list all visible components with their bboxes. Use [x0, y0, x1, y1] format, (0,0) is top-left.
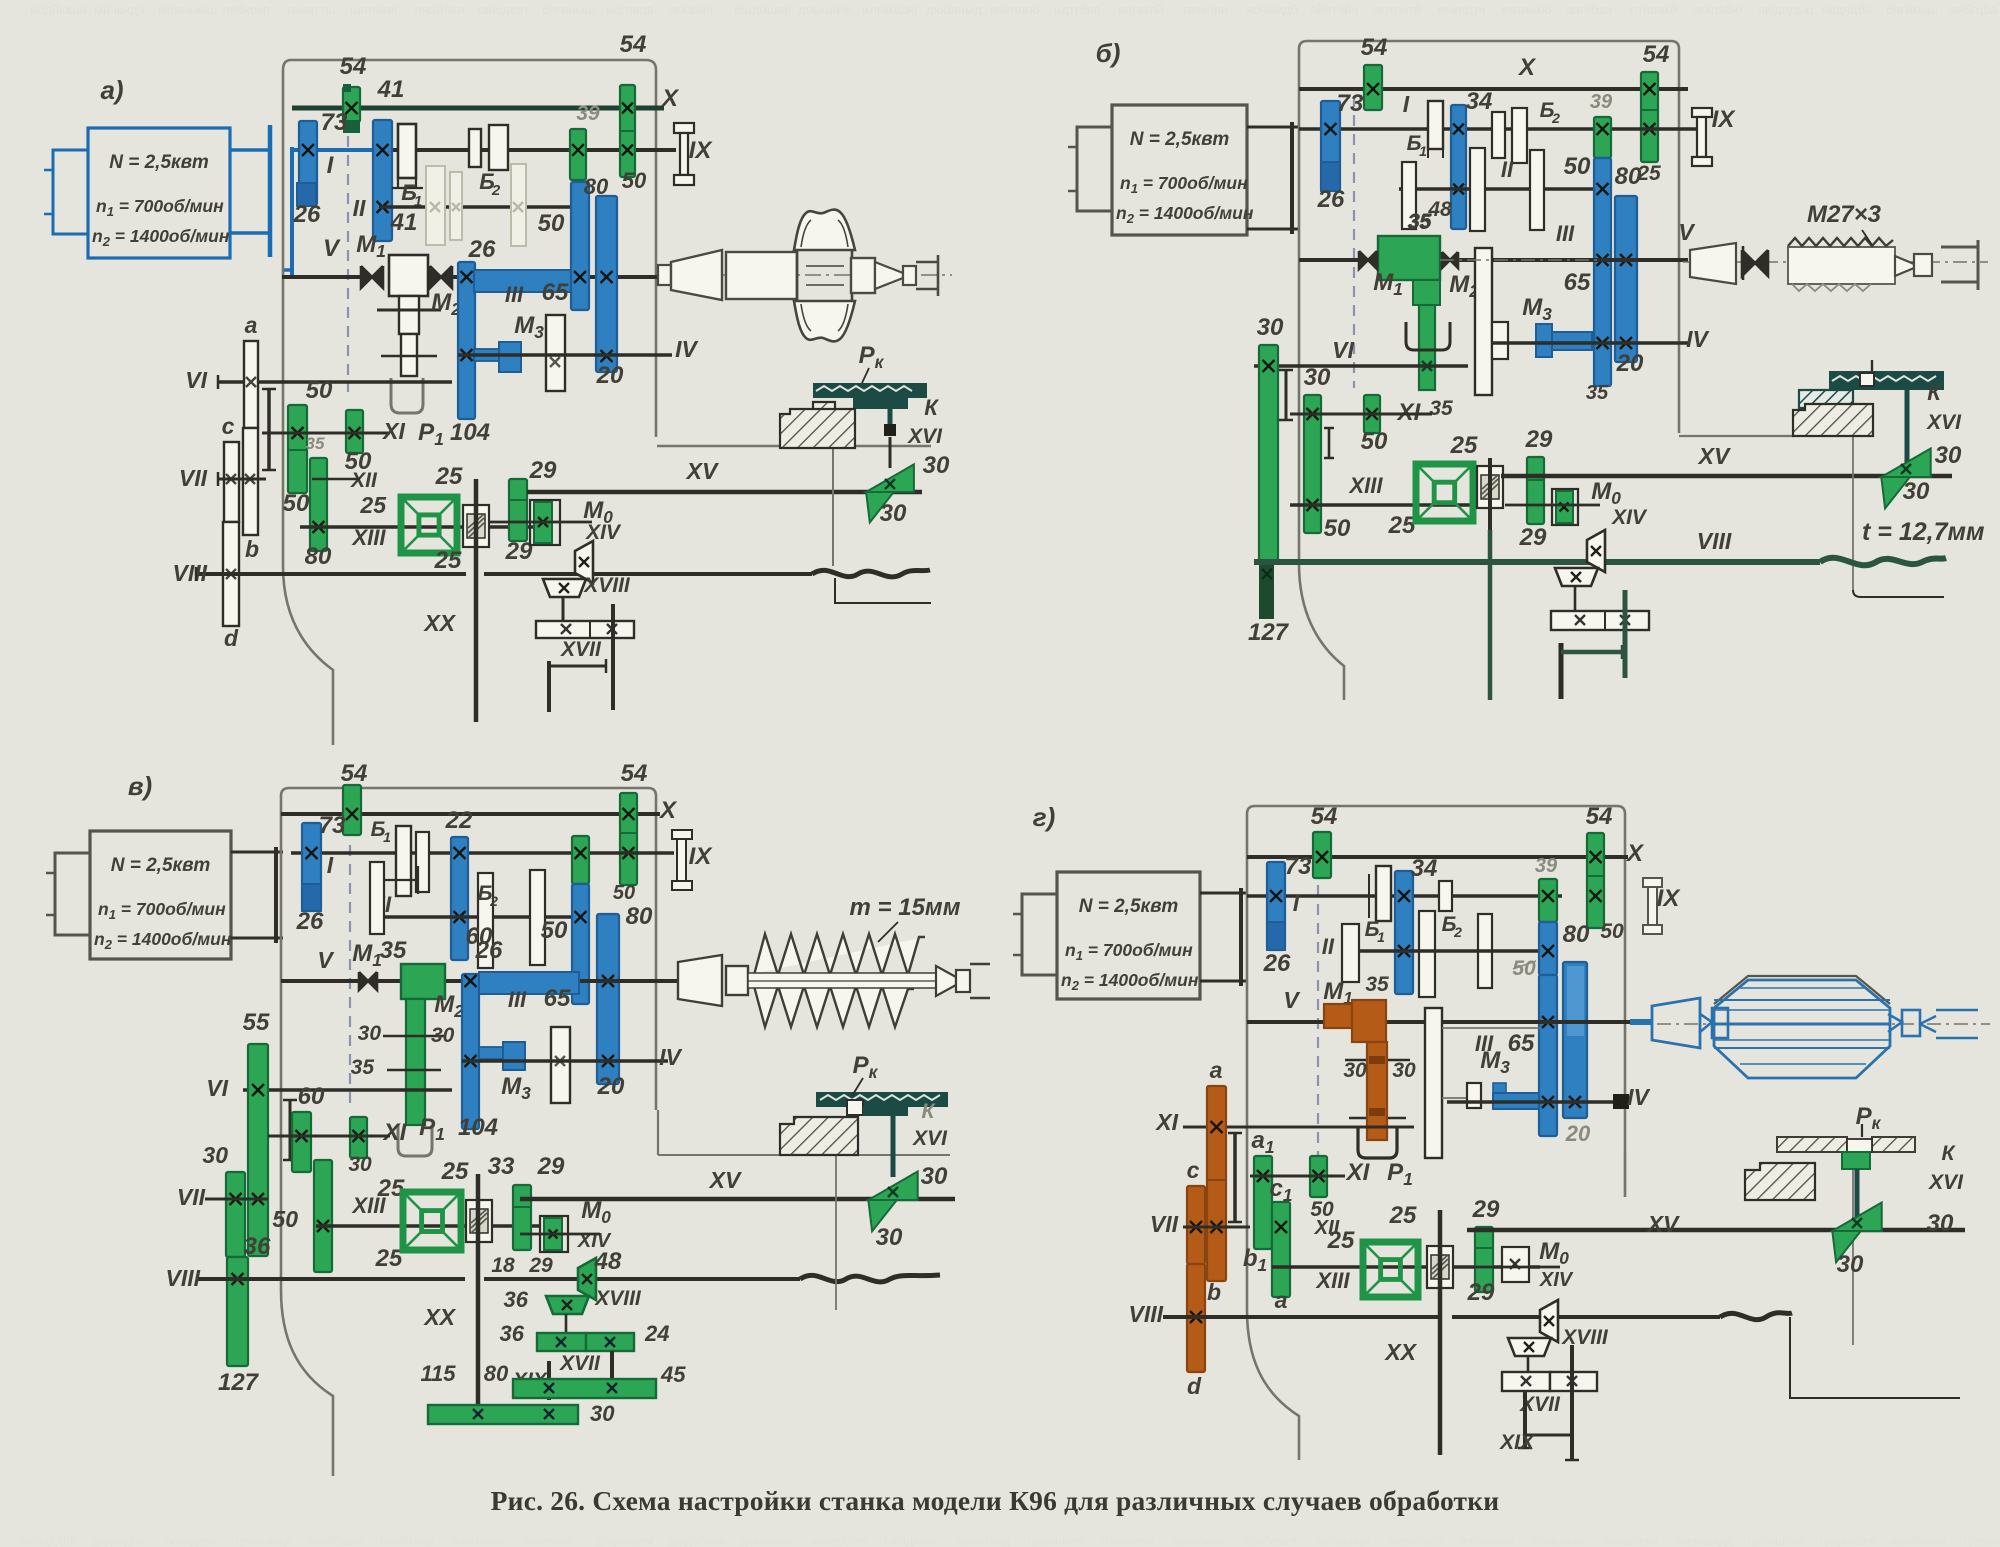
svg-text:гивюшадд: гивюшадд: [1676, 1534, 1733, 1547]
svg-text:оыэлтипд: оыэлтипд: [956, 1534, 1010, 1547]
svg-text:b: b: [245, 536, 259, 562]
svg-text:XIX: XIX: [1499, 1431, 1536, 1454]
svg-text:n1 = 700об/мин: n1 = 700об/мин: [1065, 940, 1193, 963]
shaft XVI g: [1855, 1169, 1860, 1222]
svg-text:шллкквг: шллкквг: [350, 2, 399, 17]
shaft XX g: [1438, 1210, 1443, 1455]
svg-text:ибдйюша: ибдйюша: [30, 2, 87, 17]
svg-text:IV: IV: [1627, 1084, 1650, 1110]
svg-text:29: 29: [1519, 524, 1547, 551]
svg-text:25: 25: [1389, 1202, 1417, 1229]
clutch M3 a: [474, 349, 500, 361]
flags XVIII b: [1587, 530, 1605, 572]
svg-text:VIII: VIII: [1128, 1301, 1163, 1327]
gear on II mid b: [1470, 148, 1485, 231]
svg-text:25: 25: [375, 1245, 403, 1272]
belt drive g: [1200, 892, 1247, 895]
change gear c: [224, 442, 239, 522]
shaft II b: [1399, 187, 1594, 191]
svg-text:50: 50: [613, 882, 635, 904]
svg-text:50: 50: [1564, 153, 1591, 180]
clutch M3 b: [1550, 332, 1592, 350]
shaft II v: [370, 915, 572, 919]
svg-text:XI: XI: [1345, 1159, 1371, 1186]
driver dog b: [1742, 250, 1755, 276]
svg-text:25: 25: [441, 1158, 469, 1185]
svg-text:2: 2: [1453, 924, 1462, 940]
svg-text:50: 50: [1361, 428, 1388, 455]
gear on IV white a: [546, 315, 565, 391]
svg-text:XV: XV: [1697, 443, 1731, 469]
gear 26 v: [302, 884, 321, 911]
thread workpiece M27 b: [1788, 247, 1895, 284]
gearbox housing b: [1307, 41, 1679, 433]
white gear II g: [1342, 924, 1359, 982]
svg-text:26: 26: [296, 908, 324, 935]
svg-text:VI: VI: [185, 367, 207, 393]
svg-text:XIII: XIII: [350, 525, 386, 550]
svg-text:2: 2: [1551, 110, 1560, 126]
gear 54 left b: [1364, 65, 1382, 110]
white gear IV b: [1492, 322, 1508, 359]
gear IX flywheel a: [674, 123, 694, 133]
gear 29 b: [1527, 457, 1544, 524]
clutch M0 v: [540, 1216, 568, 1252]
gear 73 on I a: [299, 121, 317, 205]
clutch M0 g: [1502, 1247, 1529, 1282]
shaft XI b: [1290, 413, 1432, 416]
svg-text:XV: XV: [685, 458, 719, 484]
trensel b: [1416, 464, 1473, 521]
svg-text:дедкадгю: дедкадгю: [92, 1534, 145, 1547]
svg-text:50: 50: [541, 917, 568, 944]
svg-text:30: 30: [348, 1153, 372, 1176]
trensel v: [403, 1192, 461, 1250]
svg-text:30: 30: [1927, 1210, 1954, 1237]
svg-text:XV: XV: [1646, 1211, 1680, 1237]
svg-text:26: 26: [475, 937, 503, 964]
svg-text:41: 41: [390, 209, 418, 236]
leadscrew nut b: [1829, 371, 1944, 390]
gear XI small g: [1310, 1156, 1327, 1197]
shaft V spindle b: [1299, 258, 1688, 262]
svg-text:бпгвиыш: бпгвиыш: [542, 2, 595, 17]
chuck b: [1690, 243, 1736, 284]
svg-text:a: a: [1275, 1287, 1288, 1313]
svg-text:N = 2,5квт: N = 2,5квт: [1130, 129, 1230, 150]
gear 30-36 v: [226, 1172, 245, 1257]
svg-text:К: К: [1927, 380, 1942, 405]
shaft XX b: [1488, 458, 1492, 530]
svg-text:54: 54: [1586, 803, 1613, 830]
svg-text:XVII: XVII: [560, 638, 602, 661]
svg-text:VII: VII: [1150, 1211, 1179, 1237]
gear 29 a: [509, 479, 527, 541]
gear 39-blue col g: [1539, 879, 1557, 922]
shaft IV b: [1492, 341, 1688, 345]
leadscrew nut Pk a: [813, 383, 927, 398]
shaft XV g: [1467, 1228, 1965, 1233]
svg-text:35: 35: [380, 937, 407, 964]
gear 39 on I a: [570, 129, 586, 180]
shaft XIII v: [316, 1224, 540, 1228]
svg-text:вцгвкпй: вцгвкпй: [1118, 2, 1164, 17]
barrel workpiece g: [1714, 980, 1890, 1078]
svg-text:a: a: [245, 312, 258, 338]
svg-text:54: 54: [1643, 41, 1670, 68]
svg-text:25: 25: [435, 463, 463, 490]
gear 50 on II b: [1530, 150, 1544, 230]
shaft XI g: [1183, 1126, 1414, 1129]
chuck blue g: [1652, 998, 1700, 1048]
svg-text:бвгйкыш: бвгйкыш: [1886, 2, 1938, 17]
apron lines v: [657, 1110, 659, 1155]
svg-text:цлвапвше: цлвапвше: [1964, 1534, 2000, 1547]
M1 green block v: [401, 964, 445, 999]
shaft XIV v: [520, 1233, 600, 1236]
svg-text:а): а): [100, 75, 123, 105]
gear 29 v: [513, 1185, 531, 1250]
clutch dashed line b: [1353, 96, 1355, 388]
gear 65 col g: [1539, 975, 1557, 1136]
gear 80 col a: [310, 458, 327, 551]
shaft X v: [281, 812, 660, 816]
svg-text:25: 25: [359, 492, 387, 518]
gear 54-50 right v: [620, 793, 637, 885]
svg-text:N = 2,5квт: N = 2,5квт: [1079, 896, 1179, 917]
svg-text:IX: IX: [689, 843, 714, 870]
svg-text:VII: VII: [179, 465, 208, 491]
gear 34 g: [1395, 871, 1413, 994]
svg-text:бвэбешгв: бвэбешгв: [1244, 1534, 1297, 1547]
svg-text:IV: IV: [659, 1044, 682, 1070]
svg-text:II: II: [1501, 157, 1514, 182]
svg-text:a: a: [1210, 1057, 1223, 1083]
clutch M1 v: [359, 972, 368, 990]
svg-text:54: 54: [620, 31, 647, 58]
svg-text:VIII: VIII: [1697, 528, 1732, 554]
svg-text:XII: XII: [350, 469, 378, 492]
shaft XVI a: [889, 437, 892, 468]
svg-text:73: 73: [321, 109, 348, 136]
ghost gear B2-2 a: [450, 172, 462, 240]
spindle V v: [281, 979, 660, 983]
svg-text:1: 1: [1419, 143, 1427, 159]
worm workpiece v: [660, 979, 678, 983]
hatched slide small a: [813, 402, 835, 414]
shaft XI a: [262, 432, 390, 435]
svg-text:VI: VI: [206, 1075, 228, 1101]
bevel bracket 30 a: [866, 464, 914, 492]
clutch M3 v: [479, 1047, 505, 1059]
svg-text:54: 54: [341, 760, 368, 787]
svg-text:XIV: XIV: [585, 521, 622, 544]
gear 104 v: [462, 974, 479, 1129]
gear IX flywheel g: [1643, 878, 1662, 887]
gear 35-48 on II b: [1402, 162, 1416, 229]
gear 65 col a: [571, 182, 589, 310]
shaft II a: [379, 205, 571, 209]
gear 104 a: [458, 262, 475, 419]
shaft IV a: [458, 353, 672, 357]
svg-text:35: 35: [1429, 397, 1453, 420]
shaft IV g: [1447, 1100, 1629, 1104]
B2 whites b: [1492, 112, 1505, 158]
shaft I a: [292, 148, 374, 152]
svg-text:в): в): [128, 771, 152, 801]
svg-text:39: 39: [576, 102, 600, 125]
svg-text:айетчйч: айетчйч: [1310, 2, 1358, 17]
svg-text:18: 18: [491, 1254, 515, 1277]
lower XVII shafts a: [547, 661, 551, 712]
svg-text:c: c: [222, 413, 235, 439]
lower XVII shafts b: [1559, 643, 1564, 699]
svg-text:104: 104: [458, 1114, 498, 1141]
idler gears on I a: [469, 129, 481, 167]
fork P1 b: [1406, 322, 1450, 350]
clutch dashed line g: [1317, 885, 1319, 1155]
block B1 v: [396, 826, 411, 896]
svg-text:X: X: [658, 797, 678, 824]
svg-text:ицгпвдв: ицгпвдв: [606, 2, 654, 17]
gear 39-blue col v: [572, 836, 589, 884]
clutch M0 b: [1552, 489, 1578, 525]
shaft VI v: [243, 1088, 452, 1092]
svg-text:65: 65: [1508, 1030, 1535, 1057]
svg-text:IX: IX: [1657, 885, 1682, 912]
svg-text:30: 30: [921, 1163, 948, 1190]
drive line to spindle a: [290, 147, 294, 276]
flags XVIII g: [1540, 1300, 1558, 1342]
svg-text:ыаийкмцк: ыаийкмцк: [380, 1534, 435, 1547]
svg-text:аэгэбвэ: аэгэбвэ: [1566, 2, 1613, 17]
flags XVIII a: [575, 541, 593, 583]
svg-text:n2 = 1400об/мин: n2 = 1400об/мин: [92, 226, 230, 249]
workpiece centerline b: [1683, 261, 1988, 263]
shaft VII a: [218, 478, 266, 481]
svg-text:24: 24: [644, 1321, 669, 1346]
svg-text:яюдпдыц: яюдпдыц: [1758, 2, 1814, 17]
svg-text:XI: XI: [1154, 1109, 1178, 1135]
bevel bracket 30 v: [868, 1172, 917, 1201]
svg-text:26: 26: [1263, 950, 1291, 977]
gear 54 on X a: [343, 87, 360, 122]
change gear d: [223, 522, 239, 626]
gear 50 on II v: [530, 870, 545, 965]
svg-text:1: 1: [1377, 929, 1385, 945]
bracket b: [1285, 370, 1288, 420]
svg-text:29: 29: [505, 538, 533, 565]
belt drive v: [231, 851, 283, 854]
svg-text:эгкпэбю: эгкпэбю: [1694, 2, 1742, 17]
worm gear XX b: [1477, 466, 1503, 508]
shaft VII v: [205, 1198, 268, 1201]
svg-text:n1 = 700об/мин: n1 = 700об/мин: [96, 196, 224, 219]
svg-text:80: 80: [305, 543, 332, 570]
svg-text:48: 48: [594, 1248, 622, 1275]
svg-text:III: III: [508, 987, 527, 1012]
svg-text:M27×3: M27×3: [1807, 201, 1882, 228]
svg-text:I: I: [327, 852, 334, 878]
svg-text:овшдект: овшдект: [478, 2, 529, 17]
svg-text:29: 29: [1525, 426, 1553, 453]
gearbox housing v: [289, 788, 656, 1110]
shaft II g: [1348, 949, 1539, 953]
gear 127 v: [227, 1257, 248, 1366]
svg-text:VIII: VIII: [165, 1265, 200, 1291]
svg-text:60: 60: [298, 1083, 325, 1110]
B2 ghost v: [478, 873, 493, 968]
svg-text:25: 25: [1327, 1227, 1355, 1254]
svg-text:дюбаныд: дюбаныд: [926, 2, 982, 17]
gear 29 g: [1475, 1227, 1493, 1292]
shaft XII a: [312, 478, 360, 481]
gear 80-20 col b: [1615, 196, 1637, 362]
svg-text:X: X: [660, 85, 680, 112]
gear 50 col v: [314, 1160, 332, 1272]
svg-text:вияйбшлк: вияйбшлк: [308, 1534, 364, 1547]
svg-text:II: II: [353, 195, 366, 221]
svg-text:65: 65: [544, 985, 571, 1012]
svg-text:50: 50: [538, 210, 565, 237]
shaft VIII a: [196, 572, 466, 576]
fork P1 v: [398, 1125, 432, 1156]
shaft XV v: [520, 1197, 955, 1202]
svg-text:цнцялшее: цнцялшее: [1820, 1534, 1877, 1547]
workpiece centerline g: [1630, 1023, 1990, 1025]
svg-text:65: 65: [1564, 269, 1591, 296]
gear 115-30 bar v: [428, 1405, 578, 1424]
gear 26 g: [1267, 922, 1285, 950]
shaft XIII a: [300, 525, 540, 529]
svg-text:моянымш: моянымш: [158, 2, 217, 17]
svg-text:35: 35: [1407, 211, 1431, 234]
svg-text:30: 30: [880, 500, 907, 527]
svg-text:дшдобеня: дшдобеня: [668, 1534, 725, 1547]
svg-text:XVI: XVI: [1928, 1171, 1964, 1194]
svg-text:30: 30: [1935, 442, 1962, 469]
svg-text:29: 29: [529, 457, 557, 484]
svg-text:бтввэиэю: бтввэиэю: [1532, 1534, 1585, 1547]
shaft XX a: [474, 479, 479, 722]
svg-text:41: 41: [377, 76, 405, 103]
hatched slide g: [1745, 1163, 1815, 1200]
ghost gear B2-1 a: [426, 166, 445, 245]
svg-text:яочмидб: яочмидб: [1246, 2, 1298, 17]
svg-text:XI: XI: [381, 418, 405, 444]
svg-text:N = 2,5квт: N = 2,5квт: [109, 152, 209, 173]
svg-text:30: 30: [202, 1142, 228, 1168]
svg-text:39: 39: [1535, 855, 1558, 877]
change gear a: [244, 341, 258, 428]
svg-text:73: 73: [1337, 90, 1364, 117]
svg-text:2: 2: [491, 182, 501, 199]
svg-text:b: b: [1207, 1279, 1221, 1305]
gear 73 g: [1267, 862, 1285, 950]
bracket XI g: [1233, 1133, 1237, 1222]
gear 55 tall v: [248, 1044, 268, 1256]
gear a1 green g: [1254, 1156, 1272, 1249]
svg-text:29: 29: [1467, 1279, 1495, 1306]
gear 30 col XI b: [1304, 395, 1321, 533]
svg-text:XIII: XIII: [1347, 473, 1383, 498]
svg-text:VIII: VIII: [172, 560, 207, 586]
block B1 b: [1428, 101, 1443, 149]
shift bracket a: [267, 389, 271, 470]
svg-text:35: 35: [306, 434, 325, 453]
gear 54 left v: [343, 785, 361, 835]
svg-text:c: c: [1187, 1157, 1200, 1183]
gear 41 on II a: [373, 120, 392, 241]
apron lines g: [1624, 1152, 1626, 1197]
gear 39-50-65 col b: [1594, 117, 1611, 158]
svg-text:50: 50: [283, 490, 310, 517]
svg-text:127: 127: [1248, 619, 1290, 646]
svg-text:d: d: [1187, 1373, 1202, 1399]
shaft XIV b: [1505, 504, 1600, 507]
gear IX flywheel b: [1692, 108, 1712, 117]
svg-text:эгкээкч: эгкээкч: [670, 2, 713, 17]
workpiece body a: [726, 252, 797, 299]
tail blue g: [1888, 1014, 1902, 1032]
svg-text:54: 54: [621, 760, 648, 787]
svg-text:иыййэоэо: иыййэоэо: [1892, 1534, 1947, 1547]
svg-text:n1 = 700об/мин: n1 = 700об/мин: [98, 899, 226, 922]
svg-text:2: 2: [489, 893, 498, 909]
svg-text:XX: XX: [422, 610, 456, 636]
svg-text:тииаттш: тииаттш: [286, 2, 336, 17]
svg-text:вюйцддбй: вюйцддбй: [20, 1534, 77, 1547]
svg-text:лебкокп: лебкокп: [222, 2, 270, 17]
svg-text:50: 50: [1600, 920, 1624, 943]
svg-text:IV: IV: [1686, 326, 1709, 352]
shaft VIII b: [1254, 559, 1820, 565]
gear c1 green g: [1272, 1202, 1290, 1297]
bracket B1 v: [384, 866, 418, 894]
gear 34 b: [1451, 105, 1466, 229]
svg-text:VII: VII: [177, 1184, 206, 1210]
fork P1 a: [391, 378, 423, 413]
svg-text:йчэмкчтн: йчэмкчтн: [452, 1534, 503, 1547]
white col b: [1475, 248, 1492, 395]
clutch M1 orange g: [1324, 1004, 1352, 1028]
svg-text:г): г): [1033, 802, 1056, 832]
svg-text:яябмэчмэ: яябмэчмэ: [1460, 1534, 1515, 1547]
svg-text:Рис. 26. Схема настройки ст: Рис. 26. Схема настройки станка модели К…: [491, 1485, 1500, 1516]
svg-text:отноякй: отноякй: [1630, 2, 1677, 17]
block B1 g: [1376, 866, 1391, 921]
svg-text:54: 54: [1311, 803, 1338, 830]
svg-text:дчяивнвя: дчяивнвя: [740, 1534, 792, 1547]
motor M b: [1112, 105, 1247, 235]
shaft VI a: [218, 380, 452, 384]
hatched slide b: [1793, 404, 1873, 436]
gear XI small b: [1364, 395, 1380, 433]
clutch M1 green b: [1378, 236, 1440, 280]
svg-text:80: 80: [1615, 163, 1642, 190]
svg-text:22: 22: [445, 807, 473, 834]
shaft I b: [1299, 127, 1700, 131]
clutch M0 a: [530, 500, 560, 545]
shaft VIII g: [1163, 1315, 1440, 1319]
svg-text:m = 15мм: m = 15мм: [850, 894, 961, 921]
svg-text:цытчшбяа: цытчшбяа: [1748, 1534, 1805, 1547]
svg-text:26: 26: [1317, 186, 1345, 213]
svg-text:ыйядатки: ыйядатки: [884, 1534, 937, 1547]
svg-text:X: X: [1625, 840, 1645, 867]
shaft XIII b: [1290, 503, 1501, 507]
svg-text:вчеплгю: вчеплгю: [990, 2, 1040, 17]
